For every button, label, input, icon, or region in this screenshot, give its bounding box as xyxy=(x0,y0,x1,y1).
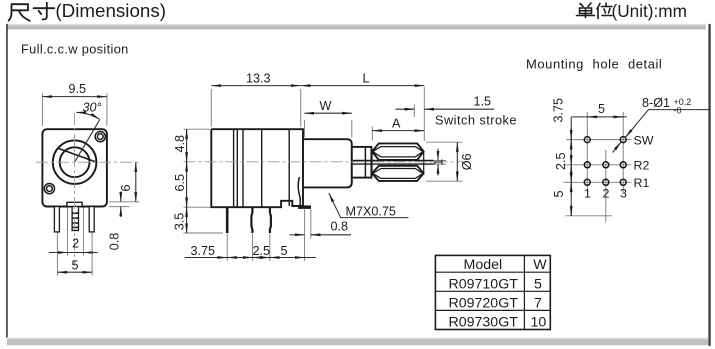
svg-text:Switch stroke: Switch stroke xyxy=(435,113,517,128)
centerline xyxy=(184,161,461,163)
svg-text:5: 5 xyxy=(281,244,288,258)
left height dims 4.8 6.5 3.5 xyxy=(184,128,211,130)
svg-text:4.8: 4.8 xyxy=(173,135,187,153)
side pin 1 xyxy=(226,207,229,233)
body outline xyxy=(211,129,303,207)
svg-text:2: 2 xyxy=(72,237,79,251)
svg-text:SW: SW xyxy=(634,134,654,148)
MOUNTING HOLE DETAIL xyxy=(526,57,711,223)
dim W xyxy=(304,120,306,137)
svg-text:5: 5 xyxy=(534,276,542,292)
center tab xyxy=(67,202,82,206)
svg-text:3.75: 3.75 xyxy=(551,98,565,123)
body xyxy=(42,129,107,206)
svg-text:30°: 30° xyxy=(83,101,102,115)
svg-text:1: 1 xyxy=(584,187,591,201)
dim 0.8 xyxy=(109,206,130,208)
svg-text:2.5: 2.5 xyxy=(554,152,568,170)
shaft neck xyxy=(352,147,372,178)
dim 0.8 foot xyxy=(304,210,306,239)
svg-text:0.8: 0.8 xyxy=(108,233,122,251)
svg-text:7: 7 xyxy=(534,295,542,311)
svg-text:R1: R1 xyxy=(634,176,650,190)
svg-text:-0: -0 xyxy=(674,106,682,116)
svg-text:Full.c.c.w position: Full.c.c.w position xyxy=(21,42,129,57)
side pin 2 kinked xyxy=(251,207,252,233)
svg-text:L: L xyxy=(363,71,370,85)
dim 5 xyxy=(56,233,58,276)
body section lines xyxy=(234,129,290,207)
knob end extension line xyxy=(423,87,425,141)
svg-text:W: W xyxy=(320,99,332,113)
unit label CJK 单位 xyxy=(577,3,613,19)
slot chord xyxy=(58,148,97,162)
svg-text:10: 10 xyxy=(531,314,547,330)
dim 5 top xyxy=(571,116,627,118)
svg-text:A: A xyxy=(392,116,401,130)
svg-text:3.75: 3.75 xyxy=(191,244,216,258)
dim 1.5 xyxy=(413,105,415,118)
svg-text:5: 5 xyxy=(598,102,605,116)
holes R2 row xyxy=(584,162,590,168)
TABLE xyxy=(435,255,550,330)
svg-text:13.3: 13.3 xyxy=(246,71,271,85)
frame left border xyxy=(6,24,8,338)
svg-text:2.5: 2.5 xyxy=(253,244,271,258)
30deg arc with arrows xyxy=(76,112,99,119)
svg-text:0.8: 0.8 xyxy=(331,220,349,234)
svg-text:6.5: 6.5 xyxy=(173,174,187,192)
mounting lug hole bottom-left xyxy=(44,184,54,194)
side pin 3 kinked xyxy=(270,207,271,233)
holes SW row xyxy=(584,137,590,143)
svg-text:R09710GT: R09710GT xyxy=(449,276,519,292)
svg-text:Model: Model xyxy=(464,257,503,273)
pointer line 30deg xyxy=(75,120,100,163)
dim dia6 xyxy=(426,141,463,143)
neck step line xyxy=(364,147,366,178)
svg-text:6: 6 xyxy=(119,184,133,191)
svg-text:9.5: 9.5 xyxy=(69,82,87,96)
svg-text:W: W xyxy=(533,257,547,273)
leader 8-dia1 xyxy=(625,110,648,138)
dim 13.3 xyxy=(210,89,212,127)
svg-text:1: 1 xyxy=(432,159,446,166)
svg-text:3.5: 3.5 xyxy=(173,213,187,231)
svg-text:5: 5 xyxy=(552,190,566,197)
svg-text:R2: R2 xyxy=(634,159,650,173)
shaft slot xyxy=(353,160,434,162)
pin right xyxy=(89,207,94,232)
FRONT VIEW xyxy=(36,82,140,275)
rotor outer circle xyxy=(53,140,97,184)
svg-text:3: 3 xyxy=(620,187,627,201)
svg-text:8-Ø1: 8-Ø1 xyxy=(642,96,670,110)
horizontal centerline xyxy=(36,161,140,163)
vertical centerline xyxy=(74,113,76,266)
knurl top inner lens xyxy=(373,147,424,157)
dim L xyxy=(301,85,425,87)
dim 1 slot xyxy=(437,149,439,161)
knurl bottom block xyxy=(372,166,424,181)
frame top bar xyxy=(6,24,706,26)
svg-text:5: 5 xyxy=(72,259,79,273)
pin middle ribbed xyxy=(72,207,78,231)
svg-text:R09730GT: R09730GT xyxy=(449,314,519,330)
svg-text:2: 2 xyxy=(603,187,610,201)
svg-text:Ø6: Ø6 xyxy=(460,153,474,170)
knurl top block xyxy=(372,143,424,160)
knob side verticals xyxy=(371,152,373,174)
left chain dims xyxy=(570,117,572,216)
pin left xyxy=(54,207,59,232)
rotor inner circle xyxy=(60,147,90,177)
svg-text:(Dimensions): (Dimensions) xyxy=(55,0,166,21)
bottom pin dims xyxy=(226,234,228,261)
bushing xyxy=(303,139,352,187)
title CJK 尺寸 (drawn as strokes) xyxy=(9,3,55,21)
mounting lug hole top-right xyxy=(95,132,105,142)
dim 6 xyxy=(109,201,140,203)
frame right border xyxy=(708,24,710,346)
svg-text:1.5: 1.5 xyxy=(474,95,492,109)
frame bottom bar xyxy=(7,337,708,339)
svg-text:M7X0.75: M7X0.75 xyxy=(346,204,396,218)
dim 2 xyxy=(67,208,69,256)
dim 9.5 xyxy=(41,94,43,127)
svg-text:R09720GT: R09720GT xyxy=(449,295,519,311)
SIDE VIEW xyxy=(173,71,517,260)
dim A xyxy=(371,127,373,141)
svg-text:Mounting hole detail: Mounting hole detail xyxy=(526,57,662,72)
leader M7X0.75 xyxy=(329,193,341,218)
holes R1 row xyxy=(584,179,590,185)
bracket spring tab xyxy=(298,177,300,206)
bracket foot xyxy=(299,206,311,209)
knurl bottom inner lens xyxy=(373,169,424,179)
svg-text:(Unit):mm: (Unit):mm xyxy=(612,1,687,21)
centerlines xyxy=(586,112,588,192)
